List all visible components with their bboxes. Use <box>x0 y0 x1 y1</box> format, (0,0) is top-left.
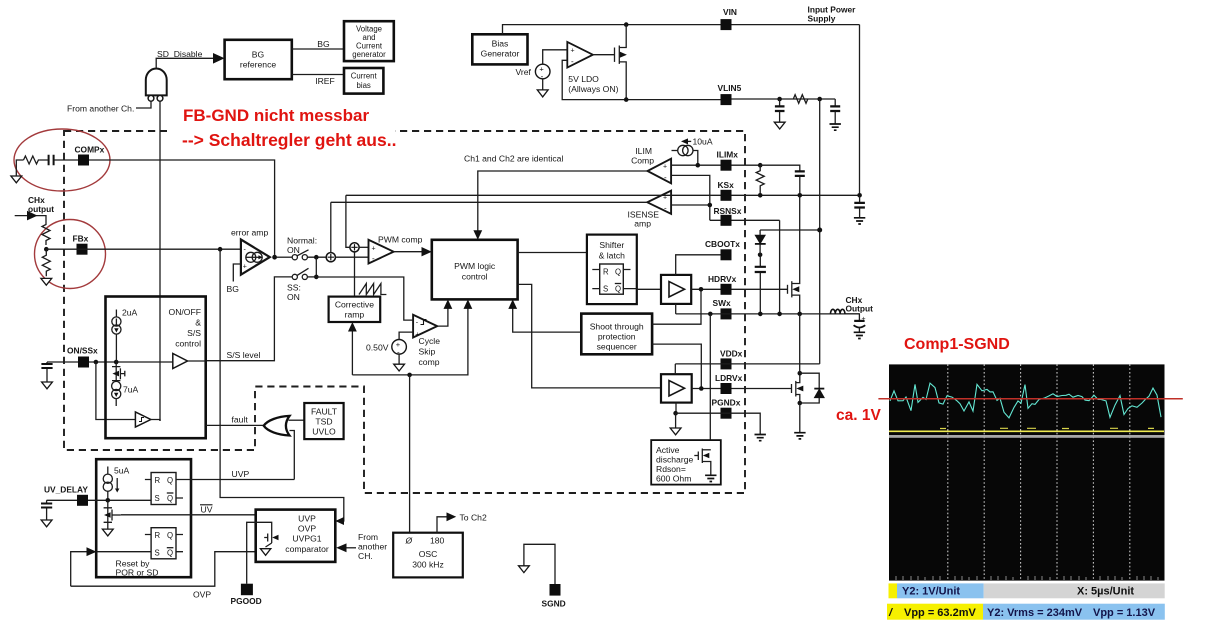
svg-text:COMPx: COMPx <box>75 145 105 155</box>
svg-text:R: R <box>155 476 161 485</box>
scope bottom tick marks <box>896 576 1158 580</box>
switch Normal ON <box>292 250 308 260</box>
wire RSNSx row <box>710 219 780 221</box>
svg-text:UVP: UVP <box>298 514 316 524</box>
pin ON/SSx <box>78 357 89 368</box>
svg-text:S: S <box>155 494 160 503</box>
ground below UV_DELAY cap <box>41 520 52 527</box>
svg-text:Generator: Generator <box>481 49 520 59</box>
pin COMPx <box>78 155 89 166</box>
svg-text:ON/SSx: ON/SSx <box>67 346 98 356</box>
pin SGND <box>550 584 561 596</box>
svg-text:Corrective: Corrective <box>335 300 374 310</box>
svg-text:UVPG1: UVPG1 <box>292 534 321 544</box>
node FB divider <box>44 247 49 252</box>
pin PGNDx <box>721 408 732 419</box>
wire switch join vertical <box>315 257 317 277</box>
wire PGOOD from comparator MOSFET <box>247 522 272 583</box>
pin PGOOD <box>241 584 253 596</box>
wire PWM comp output to PWM logic <box>394 251 426 253</box>
resistor R3 on VLIN5 <box>793 95 807 104</box>
transistor Q1 pass PMOS <box>615 25 627 100</box>
wire CBOOTx to HDRV driver top <box>676 255 721 275</box>
wire SD vertical from gate right input down to fault node <box>159 101 161 421</box>
wire KSx row (through ISENSE, to VIN rail) <box>346 194 860 196</box>
svg-text:-: - <box>664 204 667 213</box>
capacitor C2 on VLIN5 <box>834 99 836 106</box>
pin SWx <box>721 308 732 319</box>
svg-text:CBOOTx: CBOOTx <box>705 239 740 249</box>
NOR gate U1 (AND w/ inverted inputs) <box>146 68 167 101</box>
node CBOOT ext <box>758 253 763 258</box>
ground solid low-side <box>794 433 805 439</box>
wire latch output to HDRV driver <box>623 288 661 291</box>
svg-text:180: 180 <box>430 536 445 546</box>
wire OSC row to corrective ramp (arrow up) <box>351 328 353 375</box>
node switch join lower <box>314 275 319 280</box>
ground in comparator <box>260 549 270 556</box>
wire KS feedback into sum2 <box>346 195 350 247</box>
ground below C1 <box>774 122 785 129</box>
wire OVP loop into RS2 S (arrow) <box>71 552 151 587</box>
wire BG into error amp + <box>233 264 241 282</box>
ground below Vref <box>542 79 544 90</box>
svg-text:PGNDx: PGNDx <box>712 398 741 408</box>
svg-text:Supply: Supply <box>808 14 836 24</box>
node SWx fet <box>797 312 802 317</box>
wire RSNSx down to SWx node <box>779 220 781 314</box>
scope info bar row2 <box>887 604 983 620</box>
node ILIMx ext <box>758 163 763 168</box>
svg-text:protection: protection <box>598 332 636 342</box>
svg-text:300 kHz: 300 kHz <box>412 560 444 570</box>
svg-text:control: control <box>462 272 488 282</box>
transistor UV pulldown <box>104 500 121 529</box>
svg-text:ramp: ramp <box>345 310 365 320</box>
wire HDRV driver bottom to SWx row <box>675 304 677 314</box>
scope red cursor line <box>878 398 1182 400</box>
wire LDRV output row <box>692 388 792 390</box>
svg-text:0.50V: 0.50V <box>366 343 389 353</box>
svg-text:ON/OFF: ON/OFF <box>169 307 201 317</box>
wire sum1 to PWM comp - input <box>335 256 368 258</box>
svg-text:sequencer: sequencer <box>597 342 637 352</box>
svg-text:Shifter: Shifter <box>599 240 624 250</box>
switch SS ON <box>292 268 308 279</box>
node ON/SSx outer <box>94 360 99 365</box>
transistor Q low-side <box>792 373 804 403</box>
svg-text:Vpp = 63.2mV: Vpp = 63.2mV <box>904 607 977 619</box>
resistor R comp <box>24 156 40 164</box>
ground arrow SGND <box>519 566 530 573</box>
flip-flop RS2 (OVP latch) <box>145 528 183 559</box>
BG reference box <box>225 40 292 79</box>
Active discharge box <box>651 440 721 485</box>
svg-text:UV_DELAY: UV_DELAY <box>44 485 88 495</box>
svg-text:Vpp = 1.13V: Vpp = 1.13V <box>1093 607 1156 619</box>
white patch under red annotation line 2 <box>167 125 395 151</box>
ground solid output cap <box>854 332 865 338</box>
node SWx rsns <box>777 312 782 317</box>
wire cycle skip - input riser <box>316 277 413 320</box>
node RSNS sense join <box>708 203 713 208</box>
svg-text:To Ch2: To Ch2 <box>460 513 487 523</box>
summing node 2 <box>350 243 359 252</box>
op-amp ILIM comp <box>648 159 672 184</box>
wire SD output of gate to BG reference <box>156 58 218 68</box>
svg-text:VDDx: VDDx <box>720 349 743 359</box>
pin VLIN5 <box>721 94 732 105</box>
svg-text:Cycle: Cycle <box>419 336 441 346</box>
transistor Q high-side <box>788 195 800 314</box>
op-amp cycle skip comp <box>413 315 437 338</box>
Corrective ramp box <box>329 297 381 322</box>
wire ILIM - input to RSNS riser <box>671 175 710 220</box>
current source 2uA <box>112 310 121 363</box>
current source 7uA <box>112 381 121 406</box>
oscilloscope screenshot <box>878 364 1182 619</box>
svg-text:+: + <box>663 164 667 171</box>
svg-text:VLIN5: VLIN5 <box>718 83 742 93</box>
svg-text:PWM comp: PWM comp <box>378 235 423 245</box>
node PMOS-VLIN5 junction <box>624 97 629 102</box>
wire HDRV output row <box>691 288 787 290</box>
pin FBx <box>77 244 88 255</box>
svg-text:From: From <box>358 532 378 542</box>
wire fault buffer output <box>151 420 160 422</box>
current source 5uA <box>103 467 119 501</box>
transistor soft-start PMOS <box>112 362 125 381</box>
node SWx cboot <box>758 312 763 317</box>
svg-text:BG: BG <box>317 39 330 49</box>
node low-side drain <box>798 371 803 376</box>
wire cycle skip output to PWM logic <box>437 306 448 327</box>
svg-text:Q: Q <box>167 549 173 558</box>
pin VDDx <box>721 358 732 369</box>
voltage source 0.50V <box>392 340 407 355</box>
wire From another Ch. to gate left input <box>136 101 151 108</box>
wire OR bottom input from UVP <box>290 431 295 480</box>
node HDRV <box>699 287 704 292</box>
wire UVbar row to comparator <box>121 514 256 516</box>
svg-text:Comp1-SGND: Comp1-SGND <box>904 336 1010 353</box>
ground below ON/SSx cap <box>42 382 53 389</box>
svg-text:Ø: Ø <box>405 536 414 546</box>
svg-text:From another Ch.: From another Ch. <box>67 104 134 114</box>
wire From another CH. arrow into comparator <box>345 547 356 549</box>
svg-text:--> Schaltregler geht aus..: --> Schaltregler geht aus.. <box>182 130 396 150</box>
wire shoot-through lower to LDRV node <box>652 344 701 388</box>
node ON/SSx inner <box>114 360 119 365</box>
svg-text:-: - <box>571 57 574 66</box>
svg-text:7uA: 7uA <box>123 385 139 395</box>
svg-text:reference: reference <box>240 60 277 70</box>
transistor PGOOD pulldown in comparator <box>264 531 278 547</box>
svg-text:KSx: KSx <box>718 180 735 190</box>
sawtooth symbol <box>359 284 386 295</box>
pin RSNSx <box>721 215 732 226</box>
flip-flop RS1 (UVP latch) <box>145 473 183 505</box>
svg-text:SGND: SGND <box>542 599 566 609</box>
svg-text:(Allways ON): (Allways ON) <box>568 84 618 94</box>
svg-text:Output: Output <box>846 304 874 314</box>
svg-text:BG: BG <box>227 284 240 294</box>
ground solid PGNDx <box>755 435 766 441</box>
pin ILIMx <box>721 160 732 171</box>
wire SWx row <box>676 313 860 315</box>
resistor R fb lower <box>42 249 50 276</box>
driver HDRV buffer <box>661 275 691 304</box>
Shifter & latch box <box>587 235 637 305</box>
scope info bar row1 <box>889 583 898 598</box>
capacitor VIN bypass <box>859 195 861 202</box>
wire sum2 to PWM comp + input <box>359 246 368 248</box>
wire FBx row to error amp <box>46 248 241 250</box>
wire ON/SSx into control box <box>89 361 173 363</box>
svg-text:Bias: Bias <box>492 39 509 49</box>
Shoot through protection sequencer box <box>581 314 652 355</box>
svg-text:bias: bias <box>357 81 371 90</box>
wire error amp output to Normal switch <box>277 256 292 258</box>
svg-text:SWx: SWx <box>713 298 731 308</box>
wire PWM logic to shifter latch <box>518 252 587 254</box>
op-amp PWM comp <box>369 240 394 264</box>
inductor L out <box>831 309 845 314</box>
wire sum1 riser to ISENSE output line <box>330 202 332 252</box>
buffer S/S level <box>173 354 188 369</box>
svg-text:OSC: OSC <box>419 549 438 559</box>
svg-text:&: & <box>195 318 201 328</box>
capacitor C1 on VLIN5 <box>779 99 781 106</box>
svg-text:-: - <box>372 254 375 263</box>
wire Normal switch to summing node <box>307 256 326 258</box>
wire fault line to OR gate <box>206 424 264 426</box>
pin CBOOTx <box>721 249 732 260</box>
node VLIN5 cap1 <box>777 97 782 102</box>
svg-text:600 Ohm: 600 Ohm <box>656 474 691 484</box>
svg-text:control: control <box>175 339 201 349</box>
svg-text:Skip: Skip <box>419 347 436 357</box>
ground for COMPx RC <box>11 176 22 183</box>
svg-text:FB-GND nicht messbar: FB-GND nicht messbar <box>183 106 369 125</box>
scope yellow trace <box>889 430 1164 432</box>
wire ILIMx to filter cap <box>760 165 800 171</box>
wire ILIMx row <box>671 164 760 166</box>
wire LDO feedback to VLIN5 row <box>562 60 725 99</box>
svg-text:PGOOD: PGOOD <box>231 596 262 606</box>
capacitor output (polarized) <box>845 314 859 321</box>
wire corrective ramp into sum2 <box>354 252 356 297</box>
wire UV_DELAY row to RS1 S <box>88 499 151 501</box>
pin KSx <box>721 190 732 201</box>
svg-text:Rdson=: Rdson= <box>656 464 686 474</box>
label 10uA with arrow <box>683 140 691 142</box>
svg-text:generator: generator <box>352 50 386 59</box>
svg-text:S: S <box>603 285 608 294</box>
svg-text:Y2: 1V/Unit: Y2: 1V/Unit <box>902 586 960 598</box>
svg-text:ca. 1V: ca. 1V <box>836 407 881 424</box>
ground below 0.50V <box>398 354 400 364</box>
wire Vref to LDO + input <box>543 50 568 64</box>
svg-text:S: S <box>155 549 160 558</box>
wire COMPx row to error amp output riser <box>89 160 275 255</box>
svg-text:5V LDO: 5V LDO <box>568 74 599 84</box>
svg-text:S/S level: S/S level <box>227 350 261 360</box>
ground solid active discharge <box>705 475 716 481</box>
driver LDRV buffer <box>661 374 692 402</box>
scope gray baseline band <box>889 435 1165 438</box>
node LDRV <box>699 386 704 391</box>
wire VIN rail right edge down to KSx row <box>859 25 861 196</box>
wire COMPx RC <box>16 160 23 176</box>
svg-text:UVLO: UVLO <box>312 427 336 437</box>
node switch join upper <box>314 255 319 260</box>
svg-text:LDRVx: LDRVx <box>715 373 743 383</box>
svg-text:Active: Active <box>656 445 680 455</box>
transistor active discharge <box>694 449 711 476</box>
svg-text:POR or SD: POR or SD <box>116 568 159 578</box>
node SWx shoot tap <box>708 312 713 317</box>
svg-text:& latch: & latch <box>599 251 625 261</box>
svg-text:Comp: Comp <box>631 156 654 166</box>
wire PGNDx row <box>676 413 761 434</box>
OR gate fault <box>264 416 290 436</box>
svg-text:SD Disable: SD Disable <box>157 49 203 59</box>
capacitor C comp <box>49 155 54 165</box>
svg-text:+: + <box>862 316 866 323</box>
red ellipse around COMPx <box>14 129 110 191</box>
flip-flop RS in shifter <box>592 264 630 294</box>
wire Bias Generator to VIN rail <box>503 25 860 35</box>
wire SS switch left to S/S level <box>206 277 292 361</box>
wire bootstrap feed from VLIN5 rail <box>760 229 820 231</box>
svg-text:+: + <box>571 48 575 55</box>
wire BG <box>292 48 344 50</box>
Voltage and Current generator box <box>344 21 394 61</box>
svg-text:Q: Q <box>615 268 621 277</box>
node KSx resistor <box>758 193 763 198</box>
wire FB sense down to UVP comparator <box>220 249 344 521</box>
svg-text:Q: Q <box>167 494 173 503</box>
wire OR top input from FAULT box <box>289 419 305 421</box>
wire VDDx row <box>675 363 819 365</box>
capacitor on ON/SSx <box>47 362 78 382</box>
svg-text:ILIMx: ILIMx <box>717 150 739 160</box>
svg-text:10uA: 10uA <box>693 137 713 147</box>
wire SWx to low-side drain <box>799 314 801 373</box>
UV_DELAY outer box <box>96 459 191 577</box>
scope vertical gridlines <box>948 364 1130 580</box>
svg-text:OVP: OVP <box>298 524 316 534</box>
svg-text:PWM logic: PWM logic <box>454 261 496 271</box>
svg-text:another: another <box>358 542 387 552</box>
svg-text:output: output <box>28 204 54 214</box>
diode bootstrap <box>755 230 766 255</box>
svg-text:+: + <box>243 264 247 271</box>
ground stub below driver PGND <box>675 413 677 428</box>
pin VIN <box>721 19 732 30</box>
wire VLIN5 external row <box>732 98 836 100</box>
wire PWM logic to LDRV driver <box>518 284 661 388</box>
svg-text:FBx: FBx <box>73 234 89 244</box>
node KSx cap <box>798 193 803 198</box>
wire ISENSE - input <box>671 204 710 206</box>
svg-text:ON: ON <box>287 292 300 302</box>
wire VLIN5 rail down (to bootstrap / VDDx) <box>819 99 821 364</box>
svg-text:RSNSx: RSNSx <box>714 206 742 216</box>
wire ILIM comp output into PWM logic top <box>478 171 648 234</box>
resistor R fb upper <box>42 223 50 246</box>
wire PWM logic to shoot-through (arrow up) <box>513 306 582 333</box>
capacitor ILIM filter <box>795 171 805 176</box>
wire 0.50V to + input <box>399 332 413 339</box>
FAULT TSD UVLO box <box>304 403 343 439</box>
svg-text:CH.: CH. <box>358 551 373 561</box>
node driver PGND <box>673 411 678 416</box>
svg-text:IREF: IREF <box>315 76 335 86</box>
wire OSC distribution row <box>352 306 468 375</box>
svg-text:error amp: error amp <box>231 228 268 238</box>
IC boundary dashed outline <box>64 131 745 493</box>
op-amp ISENSE amp <box>647 191 671 214</box>
svg-text:ON: ON <box>287 245 300 255</box>
ground below divider <box>41 278 52 285</box>
svg-text:+: + <box>372 246 376 253</box>
ON/OFF & S/S control box <box>106 297 206 439</box>
wire To Ch2 <box>437 517 450 533</box>
wire SGND lead <box>524 544 555 584</box>
svg-text:VIN: VIN <box>723 7 737 17</box>
node OSC tap <box>407 373 412 378</box>
svg-text:comp: comp <box>419 357 440 367</box>
op-amp error amp <box>241 240 270 275</box>
UVP OVP UVPG1 comparator box <box>256 510 336 562</box>
svg-text:Ch1 and Ch2 are identical: Ch1 and Ch2 are identical <box>464 154 563 164</box>
svg-text:ILIM: ILIM <box>635 146 652 156</box>
wire shoot-through upper to HDRV node <box>652 289 701 324</box>
buffer fault hysteresis <box>135 412 150 427</box>
svg-text:OVP: OVP <box>193 590 211 600</box>
wire OSC tap down to OSC box <box>409 375 411 533</box>
svg-text:discharge: discharge <box>656 455 693 465</box>
wire ON/SSx down to hysteresis buffer <box>96 362 135 420</box>
svg-text:FAULT: FAULT <box>311 407 338 417</box>
svg-text:X: 5µs/Unit: X: 5µs/Unit <box>1077 586 1134 598</box>
current source 10uA <box>672 145 698 165</box>
scope cyan waveform <box>890 383 1161 418</box>
svg-text:amp: amp <box>634 219 651 229</box>
red ellipse around FBx <box>35 220 106 289</box>
diode flyback <box>800 373 825 403</box>
node FB sense tap <box>218 247 223 252</box>
voltage source Vref <box>535 64 550 79</box>
Bias Generator box <box>472 34 527 64</box>
capacitor bootstrap <box>759 255 761 266</box>
svg-text:BG: BG <box>252 50 265 60</box>
svg-text:5uA: 5uA <box>114 466 130 476</box>
svg-text:UVP: UVP <box>232 469 250 479</box>
node low-side source <box>798 401 803 406</box>
node 10uA tap <box>696 163 701 168</box>
node UV_DELAY internal <box>106 498 111 503</box>
pin UV_DELAY <box>77 495 88 506</box>
capacitor on UV_DELAY <box>47 500 77 520</box>
svg-text:TSD: TSD <box>315 417 332 427</box>
PWM logic control box <box>432 240 518 300</box>
node bootstrap tee <box>817 228 822 233</box>
wire IREF <box>292 74 344 76</box>
op-amp 5V LDO <box>567 42 593 68</box>
